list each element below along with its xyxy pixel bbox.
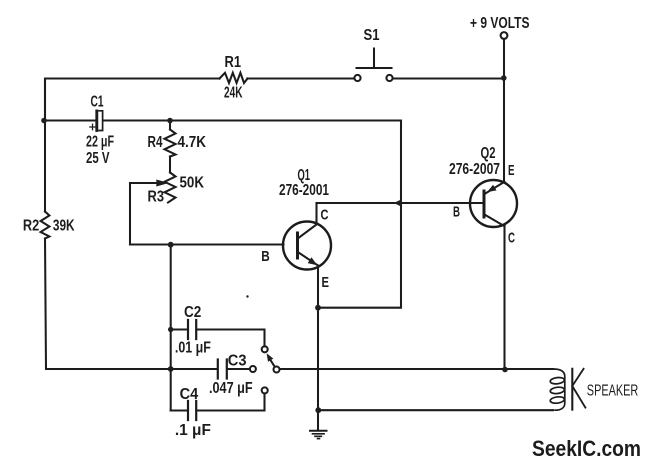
- svg-text:276-2007: 276-2007: [449, 161, 500, 178]
- svg-text:E: E: [508, 162, 515, 179]
- svg-text:.1 μF: .1 μF: [175, 422, 211, 439]
- svg-text:C1: C1: [91, 94, 104, 111]
- svg-text:R3: R3: [148, 189, 165, 206]
- svg-text:24K: 24K: [224, 85, 243, 102]
- svg-text:C2: C2: [184, 304, 201, 321]
- svg-text:25 V: 25 V: [86, 150, 110, 167]
- svg-text:SPEAKER: SPEAKER: [587, 383, 639, 400]
- svg-text:B: B: [453, 204, 460, 221]
- svg-text:.047 μF: .047 μF: [209, 380, 253, 397]
- svg-text:SeekIC.com: SeekIC.com: [532, 436, 641, 461]
- svg-text:C: C: [508, 230, 515, 247]
- svg-text:R4: R4: [148, 134, 163, 151]
- svg-text:50K: 50K: [180, 175, 205, 192]
- svg-text:S1: S1: [364, 27, 380, 44]
- svg-text:C: C: [321, 207, 329, 224]
- svg-text:39K: 39K: [53, 218, 75, 235]
- svg-text:B: B: [261, 248, 270, 265]
- svg-text:4.7K: 4.7K: [178, 134, 207, 151]
- svg-text:276-2001: 276-2001: [279, 182, 329, 199]
- svg-text:.01 μF: .01 μF: [175, 340, 211, 357]
- svg-text:+ 9 VOLTS: + 9 VOLTS: [470, 15, 530, 32]
- svg-text:22 μF: 22 μF: [86, 134, 114, 151]
- svg-text:E: E: [322, 274, 330, 291]
- svg-text:R1: R1: [225, 54, 242, 71]
- svg-text:Q2: Q2: [481, 145, 496, 162]
- svg-text:C4: C4: [180, 386, 199, 403]
- svg-text:C3: C3: [228, 353, 247, 370]
- svg-text:R2: R2: [23, 218, 39, 235]
